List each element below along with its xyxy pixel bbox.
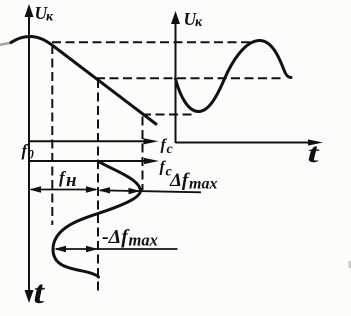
svg-text:-Δf: -Δf [102, 226, 130, 248]
dashed horizontal middle y=79 [96, 77, 281, 79]
svg-text:к: к [46, 10, 54, 25]
second fc arrow [29, 158, 159, 164]
delta-f max arrow (with extension line) [98, 187, 201, 194]
svg-text:t: t [34, 275, 45, 311]
svg-text:к: к [195, 15, 203, 30]
right vertical axis Uk [171, 11, 180, 143]
faint scan tail of curve at left edge [0, 43, 11, 45]
fn double arrow [29, 186, 98, 192]
left vertical axis (Uk up / t down) [25, 4, 34, 303]
output sine (right graph) [176, 41, 292, 112]
svg-text:max: max [129, 231, 158, 250]
svg-text:0: 0 [28, 148, 35, 162]
dashed horizontal bottom y=114.5 [142, 114, 193, 116]
scan speck at right edge [349, 261, 351, 268]
dashed horizontal top y=42 [52, 41, 255, 43]
fm input sine (rotated, below left graph) [53, 161, 141, 277]
svg-text:Δf: Δf [169, 170, 190, 191]
discriminator curve [11, 36, 156, 124]
minus delta-f max arrow (with extension line) [54, 246, 178, 252]
svg-text:c: c [167, 142, 174, 157]
dashed vertical x=142.5 [142, 117, 144, 191]
svg-text:max: max [189, 176, 217, 193]
dashed vertical x=52 [51, 45, 53, 225]
svg-text:н: н [66, 170, 77, 191]
right t axis [176, 139, 324, 145]
left f axis [29, 138, 159, 144]
dashed vertical x=98 [97, 79, 99, 295]
